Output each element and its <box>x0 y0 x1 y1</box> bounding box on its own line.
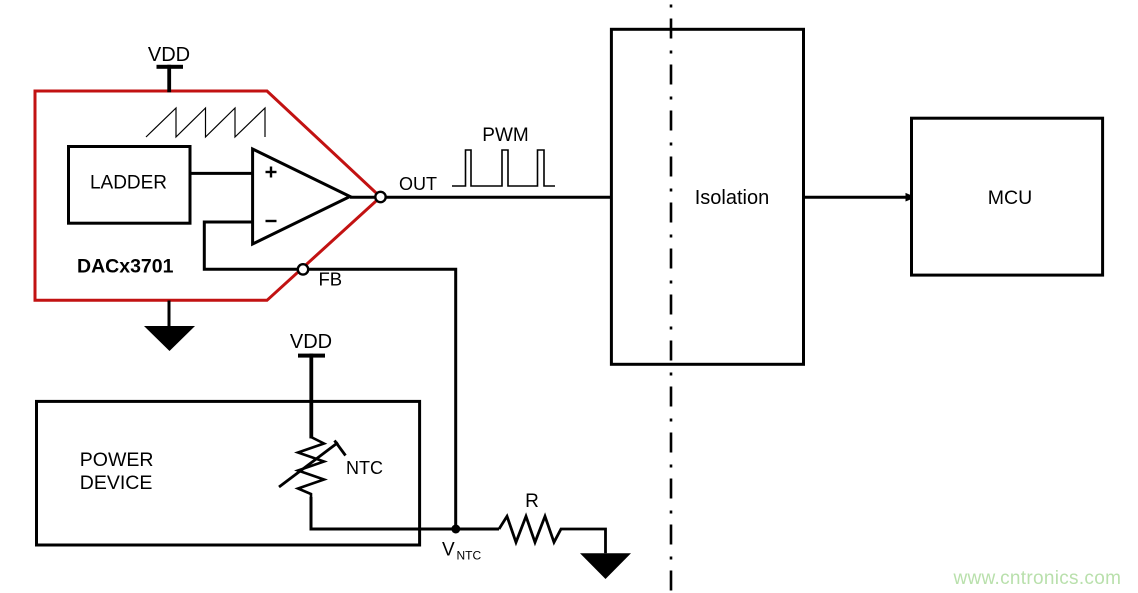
svg-text:DEVICE: DEVICE <box>80 472 153 494</box>
svg-text:FB: FB <box>319 269 343 290</box>
svg-text:DACx3701: DACx3701 <box>77 256 174 278</box>
svg-text:OUT: OUT <box>399 174 437 194</box>
svg-text:MCU: MCU <box>988 187 1032 209</box>
svg-text:PWM: PWM <box>482 125 528 146</box>
svg-text:LADDER: LADDER <box>90 173 167 194</box>
svg-text:VDD: VDD <box>148 44 190 66</box>
svg-text:V: V <box>442 540 455 561</box>
svg-text:Isolation: Isolation <box>695 187 770 209</box>
svg-text:NTC: NTC <box>457 549 482 563</box>
svg-text:VDD: VDD <box>290 331 332 353</box>
svg-text:R: R <box>525 491 539 512</box>
svg-text:NTC: NTC <box>346 458 383 478</box>
svg-text:POWER: POWER <box>80 449 154 471</box>
svg-text:www.cntronics.com: www.cntronics.com <box>953 568 1122 589</box>
